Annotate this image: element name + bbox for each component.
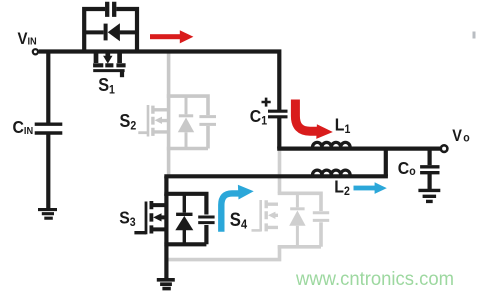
S3 source wire to ground <box>164 244 168 278</box>
inductor L2 <box>313 170 351 175</box>
S2 gate bar <box>147 105 150 137</box>
S4 loop (body diode + capacitance branch) <box>278 193 321 247</box>
S2 body arrow <box>155 117 162 124</box>
S4 gate bar <box>259 200 262 232</box>
S3 loop (body diode + capacitance branch) <box>164 194 206 245</box>
wire: CIN top lead <box>46 52 50 123</box>
wire: VIN node to C1 corner (top rail) <box>39 52 280 111</box>
transistor S4 (inactive, grey) <box>168 148 329 260</box>
switch S1 <box>84 2 137 77</box>
wire: C1 bottom lead to L1 rail <box>277 118 281 149</box>
S2 MOSFET channel stubs <box>154 110 167 132</box>
S4 gate lead <box>252 229 261 232</box>
S3 gate bar <box>145 202 148 235</box>
inductor L1 <box>313 142 351 147</box>
wire: Co top lead <box>428 149 432 166</box>
S3 body arrow <box>153 213 161 221</box>
S4 source wire to ground rail <box>168 246 279 260</box>
S2 drain/source rail wire <box>167 52 171 175</box>
S4 MOSFET channel bars <box>265 200 268 231</box>
capacitor Co <box>420 167 439 173</box>
S2 gate lead <box>138 131 148 134</box>
node VIN terminal <box>33 49 38 54</box>
S3 drain wire from L2 rail <box>164 176 168 196</box>
S4 parasitic capacitor plates <box>313 213 329 221</box>
S4 body arrow <box>268 212 275 219</box>
S2 loop (body diode + capacitance branch) <box>167 96 208 148</box>
current arrow (blue, L2 output) <box>354 182 387 194</box>
wire: L2 rail from S3 drain to junction <box>164 174 388 178</box>
S4 MOSFET channel stubs <box>268 204 279 227</box>
S2 parasitic capacitor plates <box>199 117 216 125</box>
S3 rail left side <box>164 194 168 245</box>
current arrow (blue, S4 curved) <box>221 193 238 231</box>
S1 body arrow stub <box>105 52 110 57</box>
ground (CIN) <box>38 210 57 219</box>
S3 parasitic capacitor plates <box>198 217 214 223</box>
wire: CIN bottom lead <box>46 134 50 208</box>
transistor S2 (inactive, grey) <box>138 52 216 175</box>
S2 body diode <box>185 98 188 115</box>
current arrow (red, input through S1) <box>150 30 193 43</box>
S3 body diode <box>183 195 186 213</box>
S3 gate lead <box>134 231 146 234</box>
S1 MOSFET drain/source stubs <box>96 52 120 63</box>
S3 MOSFET channel stubs <box>153 205 165 229</box>
S4 drain rail wire <box>278 148 282 193</box>
wire: Co bottom lead <box>428 174 432 189</box>
S1 gate bar <box>93 69 124 72</box>
S1 body diode triangle <box>108 23 120 41</box>
S1 loop (body diode + capacitance branch) <box>84 9 137 52</box>
S2 MOSFET channel bars <box>151 106 154 136</box>
svg-text:www.cntronics.com: www.cntronics.com <box>295 268 454 290</box>
stray grey mark top right <box>473 32 476 39</box>
S3 MOSFET channel bars <box>149 201 153 234</box>
S1 body arrow head <box>103 56 112 64</box>
S4 body diode <box>296 195 299 208</box>
S1 MOSFET channel bars <box>93 63 126 67</box>
S1 parasitic capacitor plates <box>107 2 114 17</box>
wire: output rail through L1 to Vo <box>277 147 440 151</box>
ground (S3) <box>157 280 175 289</box>
S1 diode branch leads <box>84 30 137 34</box>
transistor S3 <box>134 176 214 278</box>
current arrow (red, C1 to L1 curved) <box>295 100 317 132</box>
capacitor C1 <box>268 111 288 117</box>
wire: junction vertical L1/L2 <box>384 149 388 177</box>
capacitor CIN <box>35 124 63 133</box>
label C1 plus sign <box>262 98 271 107</box>
node Vo terminal <box>441 145 448 152</box>
S1 gate lead <box>120 71 124 78</box>
S1 body diode cathode bar <box>104 24 108 41</box>
ground (Co) <box>418 190 440 201</box>
